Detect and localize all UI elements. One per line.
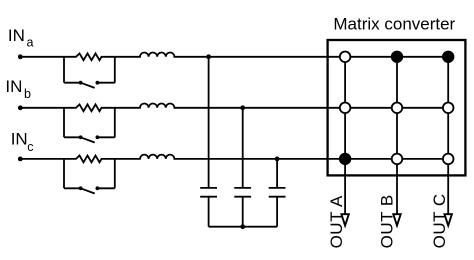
svg-text:a: a: [27, 36, 34, 50]
svg-text:OUT B: OUT B: [378, 194, 397, 248]
svg-text:c: c: [27, 140, 33, 154]
svg-text:IN: IN: [8, 26, 25, 45]
svg-text:OUT C: OUT C: [430, 193, 449, 248]
svg-text:IN: IN: [5, 77, 22, 96]
svg-text:Matrix converter: Matrix converter: [333, 15, 455, 34]
svg-text:b: b: [24, 87, 31, 101]
svg-text:OUT A: OUT A: [327, 195, 346, 248]
svg-text:IN: IN: [11, 129, 28, 148]
